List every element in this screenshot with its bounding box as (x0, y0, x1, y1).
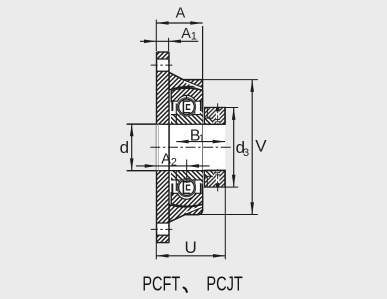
thread ticks top (215, 119, 220, 121)
set screw slot bottom (216, 170, 220, 187)
inner ring bottom (hatched section) (171, 170, 203, 180)
bolt hole centerline bottom (151, 228, 175, 230)
flange front face across bore (168, 124, 170, 170)
housing top chamfer white sliver (184, 81, 203, 88)
shaft centerline (150, 146, 231, 148)
svg-text:U: U (185, 238, 197, 257)
housing bottom chamfer line (185, 207, 203, 214)
inner ring left face top (175, 104, 177, 125)
set screw thread block bottom (216, 183, 220, 187)
housing bottom outline (slope + fillet) (169, 210, 202, 223)
seal zone right hatch top (200, 111, 203, 115)
housing top outline (slope + OD) (169, 72, 202, 79)
seal slot edge right top (194, 101, 196, 114)
inner ring left face bottom (175, 170, 177, 191)
dim A2 line (136, 165, 210, 167)
dim A extension left (155, 20, 157, 52)
svg-text:PCFT: PCFT (142, 273, 180, 295)
housing shoulder top (hatched region) (169, 72, 202, 89)
dim V line (251, 80, 253, 215)
collar recess patch top (204, 118, 213, 124)
collar outline bottom (204, 170, 225, 187)
flange bolt hole edges (156, 58, 169, 60)
inner ring shoulder hatch left top (177, 110, 181, 115)
dim A line (156, 22, 202, 24)
ball cage marks bottom (183, 182, 190, 194)
housing top chamfer line (183, 80, 202, 88)
inner ring / collar right face (224, 107, 226, 124)
flange plate (hatched) (156, 52, 169, 243)
outer ring bottom (hatched section) (171, 193, 202, 206)
housing bottom chamfer white sliver (186, 206, 203, 213)
seal left (solid bar) top (171, 100, 173, 111)
bearing housing white interior (169, 88, 203, 207)
flange back face edge across bore (light) (156, 124, 158, 170)
outer ring left face top (170, 91, 172, 103)
ball top (179, 99, 195, 115)
thread ticks bottom (215, 174, 220, 176)
seal slot edge left top (180, 104, 182, 115)
raceway gap top (177, 98, 195, 116)
svg-text:3: 3 (243, 147, 249, 159)
dim B1 line (176, 141, 225, 143)
collar internal step bottom (206, 176, 208, 187)
dim A2 extension (bearing center plane) (186, 160, 188, 184)
cage tick above ball top (186, 95, 188, 99)
inner ring shoulder hatch left bottom (177, 180, 181, 185)
ball bottom (179, 180, 195, 196)
collar outline top (204, 107, 225, 124)
housing spherical seat arc top (169, 88, 203, 91)
shaft clearance hole through flange (white) (156, 125, 169, 170)
seal right (solid bar) top (200, 101, 202, 112)
set screw centerline top (217, 103, 219, 127)
dim U line (156, 255, 225, 257)
flange bolt hole top (white gap) (157, 59, 168, 71)
seal zone right hatch bottom (200, 180, 203, 184)
bore lines (shaft hole d) (127, 123, 225, 125)
housing bottom shoulder (hatched region) (169, 204, 202, 222)
svg-text:d: d (120, 138, 129, 157)
dim U extension left (155, 243, 157, 260)
inner ring top (hatched section) (171, 115, 203, 125)
flange outline (156, 51, 169, 53)
svg-text:A: A (181, 26, 191, 42)
housing spherical seat arc bottom (169, 204, 203, 207)
outer ring left face bottom (170, 192, 172, 204)
svg-text:1: 1 (199, 133, 205, 145)
seal slot edge left bottom (180, 180, 182, 191)
dim V extension top (203, 79, 258, 81)
raceway gap bottom (177, 178, 195, 196)
svg-text:A: A (176, 6, 186, 22)
bolt hole centerline top (151, 64, 175, 66)
svg-text:V: V (255, 137, 267, 156)
flange bolt hole bottom (white gap) (157, 223, 168, 235)
svg-text:A: A (161, 152, 171, 168)
dim V extension bottom (185, 214, 258, 216)
seal slot edge right bottom (194, 180, 196, 193)
dim d3 extension bottom (225, 186, 238, 188)
set screw slot top (216, 107, 220, 124)
collar internal step top (206, 107, 208, 118)
seal right (solid bar) bottom (200, 184, 202, 195)
dim d extension bottom (127, 170, 157, 172)
dim d line (131, 124, 133, 171)
inner ring top edge bottom (171, 179, 203, 181)
set screw thread block top (216, 107, 220, 111)
locking collar top (hatched) (204, 107, 225, 124)
svg-text:2: 2 (171, 157, 177, 169)
svg-text:1: 1 (191, 31, 197, 43)
ball cage marks top (183, 101, 190, 113)
collar recess patch bottom (204, 170, 213, 176)
outer ring top (hatched section) (171, 89, 202, 102)
dim U extension right (224, 187, 226, 259)
dim d3 extension top (225, 107, 238, 109)
dim d3 line (233, 108, 235, 187)
dim A1 extension right (168, 38, 170, 51)
locking collar bottom (hatched) (204, 170, 225, 187)
dim A1 line (140, 40, 198, 42)
set screw centerline bottom (217, 167, 219, 191)
ideographic comma (184, 288, 187, 292)
svg-text:PCJT: PCJT (206, 273, 242, 295)
housing front face (202, 26, 204, 124)
seal left (solid bar) bottom (171, 184, 173, 195)
dim d extension top (127, 123, 157, 125)
inner ring top edge top (171, 114, 203, 116)
